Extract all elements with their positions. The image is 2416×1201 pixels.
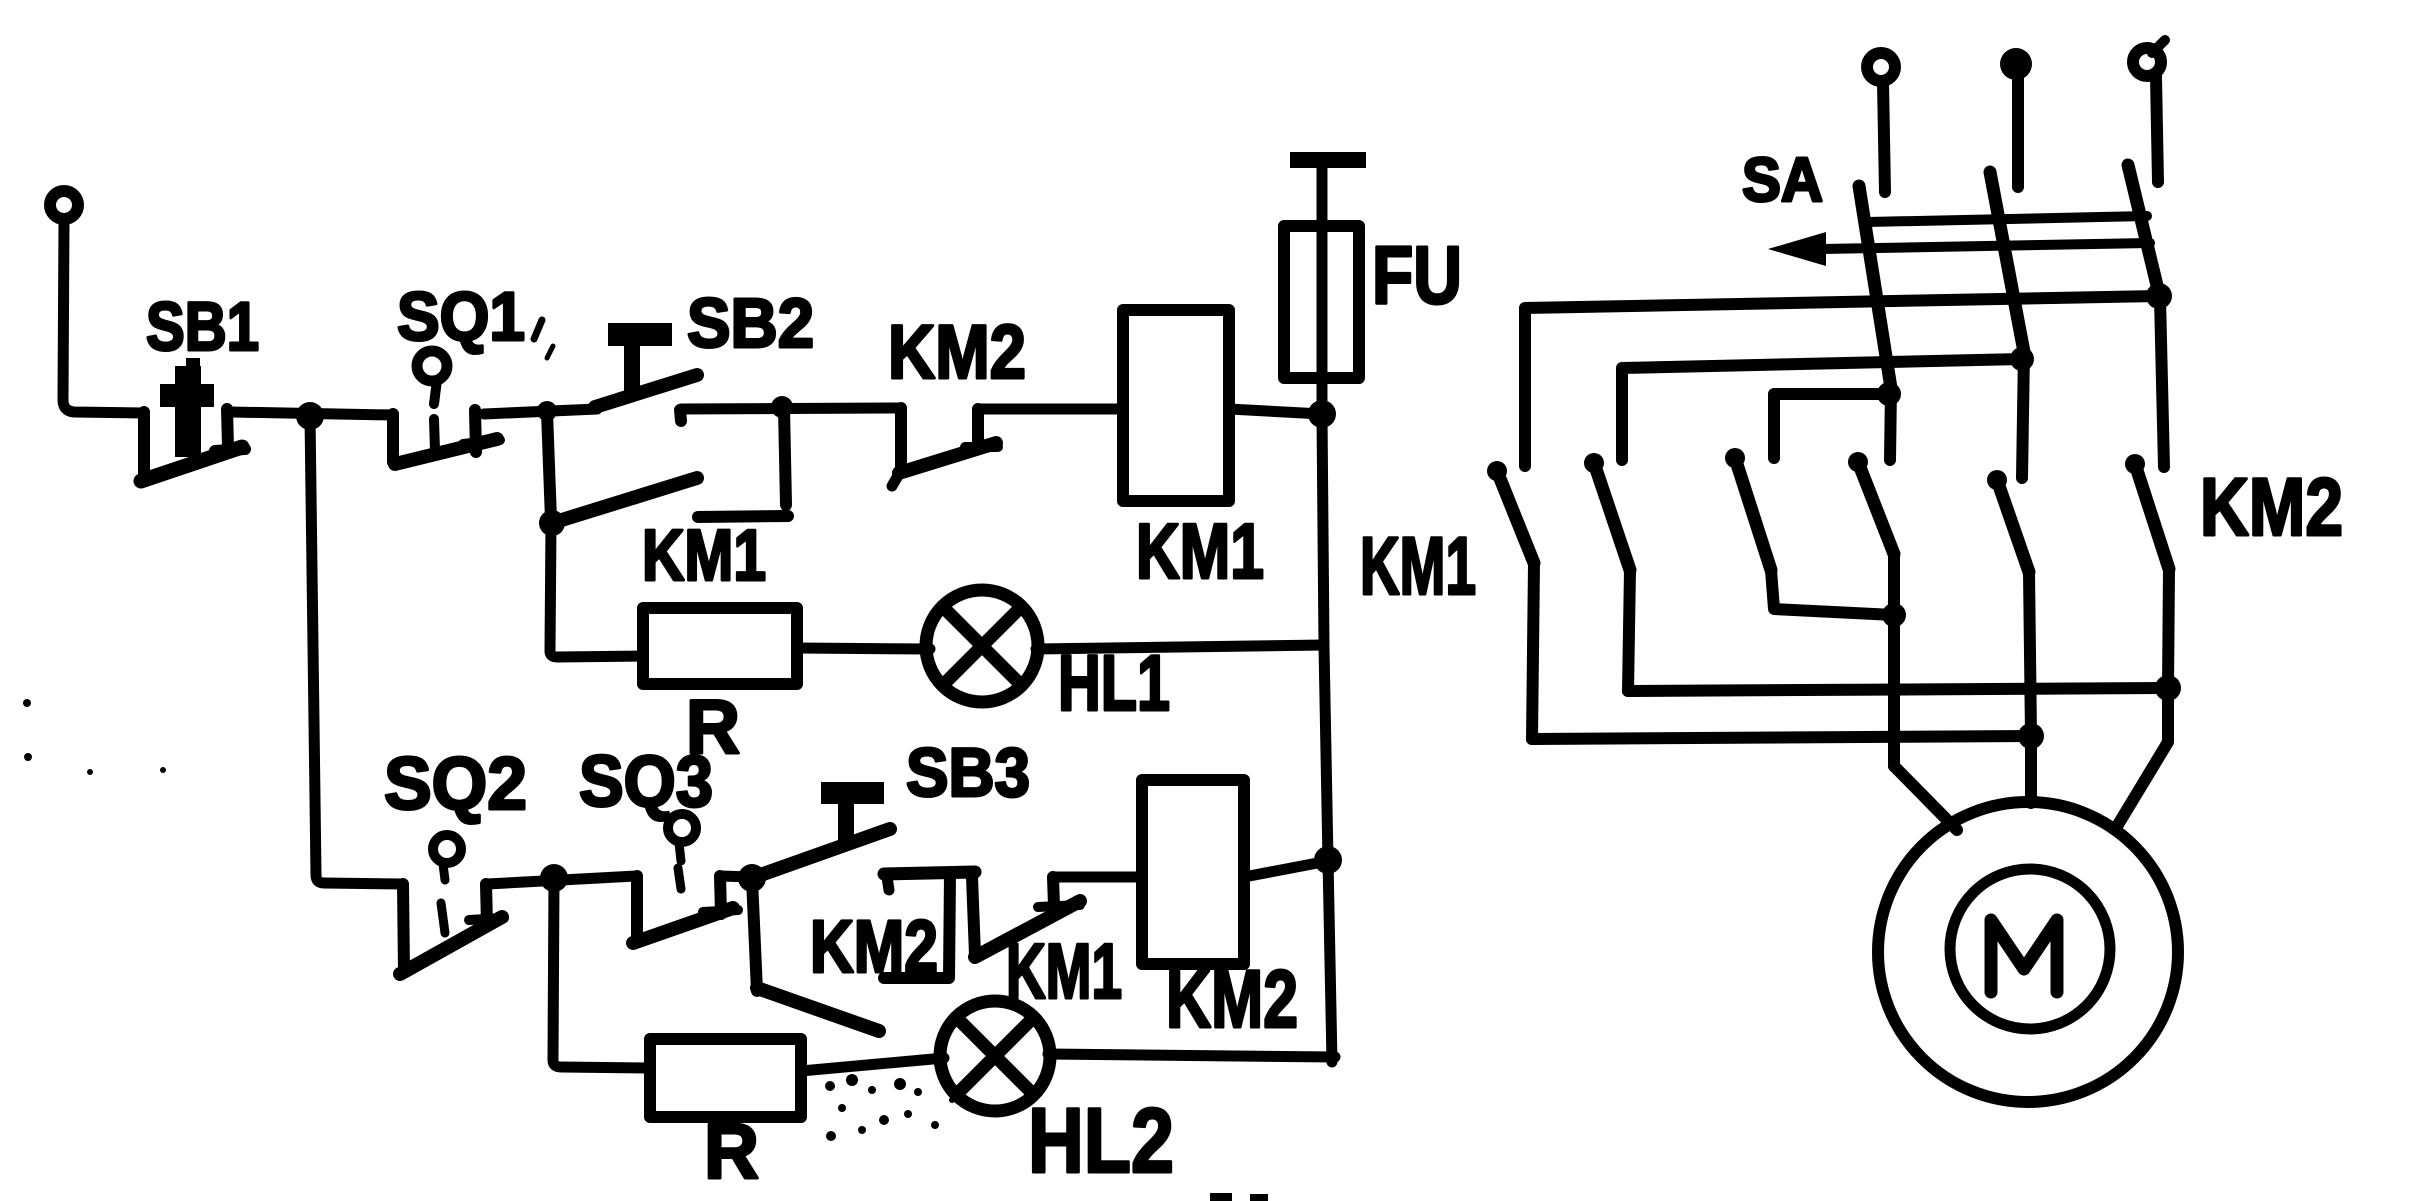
row 2 crossover wire [1622,359,2022,460]
motor M [1878,802,2178,1102]
wire SB2 to KM2 contact [681,408,901,409]
svg-text:SQ2: SQ2 [384,742,527,825]
stray speckles left margin [23,699,166,775]
contact KM1 (NC interlock in rung 2) [972,877,1080,957]
label HL2 [1028,1090,1174,1192]
node C (junction of holding branch) [771,396,793,418]
right bus of control circuit [1322,414,1332,1062]
wire SA pole 1 to row 3 [1877,382,1901,460]
label HL1 [1058,638,1170,727]
svg-text:R: R [704,1107,759,1195]
limit switch SQ1 (NC) [393,351,500,464]
label SB3 [906,734,1030,811]
label KM2 (interlock rung 1) [888,310,1026,395]
wire lamp HL2 to bus [1048,1054,1335,1057]
wire coil KM1 to bus [1229,409,1322,414]
svg-text:KM2: KM2 [2200,462,2343,553]
switch SA pole 1 blade [1859,186,1891,388]
svg-text:KM2: KM2 [1166,954,1298,1045]
switch SA pole 3 blade [2128,165,2160,298]
wire SB1 to SQ1 [231,412,392,415]
svg-text:SB1: SB1 [146,288,259,365]
wire lamp HL1 to bus [1036,645,1324,649]
label SB2 [687,284,814,362]
wire node B down to resistor branch 1 [550,523,643,657]
svg-text:FU: FU [1372,230,1462,321]
label SQ2 [384,742,527,825]
wire from X1 down to rung 1 [63,220,143,413]
wire KM1 contact to coil KM2 [1053,872,1142,883]
label KM1 (holding contact) [642,516,766,596]
contact KM2 pole 2 [1987,470,2031,735]
supply terminal L3 [2133,40,2165,182]
limit switch SQ3 (NC) [633,814,738,943]
node B (tap for KM1 holding contact) [537,401,557,421]
pushbutton SB2 (NO start forward) [595,323,697,421]
label SQ1 [397,278,553,358]
wire resistor R to lamp HL2 [801,1058,944,1071]
node E (tap for resistor branch 2) [540,864,568,892]
wire SQ1 to node B [484,409,597,414]
svg-text:KM1: KM1 [1136,507,1264,595]
contact KM2 pole 1 [1848,452,1906,766]
wire node E down to resistor branch 2 [553,878,650,1068]
wire SQ3 to node F [721,876,751,877]
svg-text:KM2: KM2 [888,310,1026,395]
output bus 1 (KM1 pole2 to KM2 pole3) [1628,675,2181,701]
node A (junction to lower rung) [296,402,324,430]
svg-text:SB2: SB2 [687,284,814,362]
label SB1 [146,288,259,365]
label KM2 (holding contact rung 2) [810,905,938,988]
lamp HL2 [940,1001,1050,1111]
limit switch SQ2 (NC) [400,835,504,974]
label KM2 (coil) [1166,954,1298,1045]
svg-text:KM2: KM2 [810,905,938,988]
stray mark bottom center [1210,1193,1268,1201]
label KM2 (power contacts) [2200,462,2343,553]
wire SA pole 2 to row 2 [2010,347,2034,478]
svg-text:SA: SA [1742,146,1823,215]
svg-text:SB3: SB3 [906,734,1030,811]
wire resistor R to lamp HL1 [797,648,930,649]
contact KM2 pole 3 [2125,454,2169,688]
contact KM1 pole 2 [1584,453,1630,691]
wire coil KM2 to bus [1244,861,1328,877]
ink smudge below resistor [825,1074,955,1141]
label SQ3 [579,742,713,822]
supply terminal L1 [1867,53,1895,192]
resistor R (rung 2) [650,1039,801,1117]
contact KM1 (holding NO auxiliary contact) [539,408,788,536]
motor lead V [2025,736,2037,803]
switch SA linkage bar with arrow [1768,216,2150,266]
motor lead U [1894,766,1957,830]
contact KM2 (NC interlock in rung 1) [892,408,998,486]
row 3 crossover wire [1774,394,1889,458]
pushbutton SB1 (NC stop button with mushroom head) [141,358,245,481]
wire SA pole 3 to row 1 [2146,283,2172,467]
contact KM1 pole 3 [1725,448,1894,615]
coil KM2 [1142,780,1244,964]
svg-text:KM1: KM1 [642,516,766,596]
lamp HL1 [926,590,1038,702]
contact KM2 (holding NO auxiliary, rung 2) [752,875,950,1031]
wire SQ2 to SQ3 [487,876,637,884]
fuse FU [1284,152,1366,410]
coil KM1 [1123,310,1229,501]
svg-text:SQ3: SQ3 [579,742,713,822]
label FU [1372,230,1462,321]
label KM1 (interlock rung 2) [1006,927,1122,1015]
node F (junction of SB3 and KM2 holding contact) [738,864,766,892]
output bus 2 (KM1 pole1 to KM2 pole2) [1532,723,2044,749]
resistor R (rung 1) [643,608,797,684]
switch SA pole 2 blade [1990,172,2024,352]
label R (rung 2) [704,1107,759,1195]
wire node A down to rung 2 [310,416,403,884]
svg-text:HL2: HL2 [1028,1090,1174,1192]
terminal X1 (top-left supply terminal) [50,191,78,219]
wire KM2 contact to coil KM1 [978,404,1123,415]
contact KM1 pole 1 [1487,461,1534,739]
label KM1 (power contacts) [1360,521,1476,612]
label KM1 (coil) [1136,507,1264,595]
node G (bus junction at coil KM2) [1314,846,1342,874]
label SA [1742,146,1823,215]
label R (rung 1) [686,685,740,770]
supply terminal L2 [2000,48,2032,187]
row 1 crossover wire [1525,296,2159,466]
svg-text:SQ1: SQ1 [397,278,525,355]
pushbutton SB3 (NO start reverse) [752,782,975,890]
node D (bus top junction) [1308,400,1336,428]
svg-text:KM1: KM1 [1360,521,1476,612]
motor lead W [2116,688,2168,828]
